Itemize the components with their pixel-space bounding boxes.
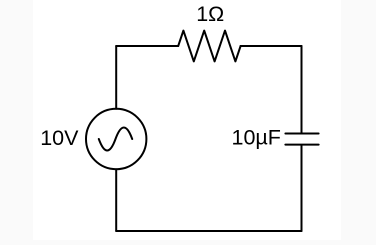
- svg-text:10µF: 10µF: [232, 126, 281, 150]
- wire right upper: [301, 46, 303, 133]
- svg-text:1Ω: 1Ω: [196, 2, 224, 26]
- wire bottom: [116, 230, 301, 232]
- wire left lower: [115, 169, 117, 231]
- wire left upper: [115, 46, 117, 109]
- svg-text:10V: 10V: [40, 126, 79, 150]
- capacitor C1 top plate: [285, 133, 318, 135]
- source V1 circle: [86, 109, 146, 169]
- wire right lower: [301, 146, 303, 231]
- capacitor C1 bottom plate: [285, 144, 318, 146]
- resistor R1: [178, 31, 240, 62]
- source V1 sine wave: [99, 128, 132, 151]
- wire top-right segment: [241, 45, 302, 47]
- wire top-left segment: [116, 45, 178, 47]
